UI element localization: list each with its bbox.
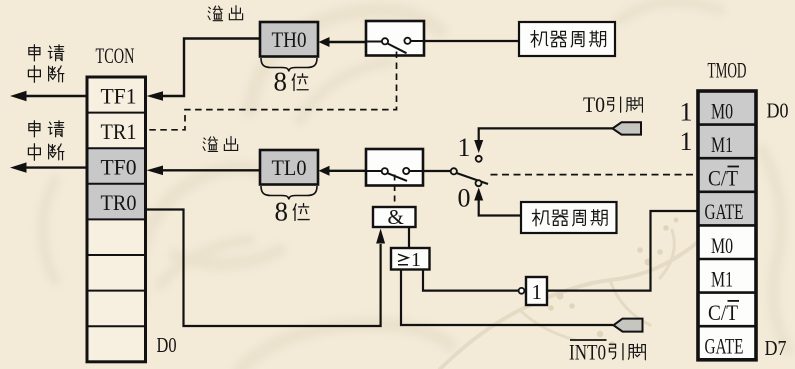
svg-text:&: & [388,205,404,229]
svg-text:8: 8 [274,67,288,97]
register TL0 [260,150,318,185]
svg-text:GATE: GATE [705,199,744,224]
pin INT0 [614,319,643,332]
label 溢出 (TH0) [208,6,243,21]
label TCON [96,43,135,68]
svg-text:M0: M0 [711,233,733,258]
bit GATE (high) [705,199,744,224]
register TH0 [260,22,318,57]
label T0引脚 [583,92,642,117]
svg-text:0: 0 [458,184,471,213]
wire switch2 to TL0 arrow [319,166,367,176]
wire TR0 to and-gate [147,210,386,327]
wire TF0 interrupt arrow [10,162,87,172]
label 8位 (TH0) [274,67,309,97]
label 1 (M1 preset) [680,127,693,156]
wire T0 pin to upper contact [474,128,613,161]
label 申请中断 (upper) [28,45,63,83]
wire TH0 overflow to TF1 [147,39,261,101]
svg-text:1: 1 [411,249,421,271]
box machine cycle 2 [521,202,617,233]
svg-text:C/T: C/T [708,300,738,325]
wire dashed TR1 control to switch1 [147,52,397,130]
svg-text:8: 8 [275,197,289,227]
switch S2 (TL0 input) [366,149,423,186]
not-gate (GATE inverter) [526,277,547,305]
wire TF1 interrupt arrow [10,91,87,101]
wire and-gate to or-gate [408,227,410,248]
svg-text:D7: D7 [765,336,787,360]
label 1 (M0 preset) [680,97,693,126]
wire dashed selector to C/T bit [491,174,699,176]
bit C/T (low) [708,300,739,325]
wire switch1 to TH0 arrow [319,37,367,47]
svg-text:1: 1 [680,127,693,156]
svg-text:TR1: TR1 [101,119,137,144]
and-gate U1 [373,205,416,229]
svg-text:C/T: C/T [708,166,738,191]
svg-text:M1: M1 [711,266,733,291]
svg-text:M1: M1 [711,132,733,157]
label INT0引脚 [569,340,645,365]
wire or-gate to not-gate input [423,270,518,291]
box machine cycle 1 [519,22,615,56]
wire or-gate to INT0 pin [401,270,613,326]
svg-text:TH0: TH0 [272,27,307,52]
label 0 (timer position) [458,184,471,213]
wire switch2 to selector pole [423,170,450,172]
pin T0 [613,122,642,134]
brace TL0 8-bit [261,186,317,200]
switch S1 (TH0 input) [366,21,424,56]
bit TR0 [101,190,137,215]
svg-text:TL0: TL0 [272,155,307,180]
label D7 (TMOD) [765,336,787,360]
svg-text:D0: D0 [157,333,177,357]
bit TF1 [101,84,137,109]
svg-text:TMOD: TMOD [708,58,747,83]
label TMOD [708,58,747,83]
register TCON [87,77,146,362]
bit M0 (low) [711,233,733,258]
bit M0 (high) [711,99,733,124]
label D0 (TCON) [157,333,177,357]
svg-text:1: 1 [532,280,543,304]
svg-text:1: 1 [458,133,471,162]
brace TH0 8-bit [261,58,317,72]
svg-text:GATE: GATE [705,334,744,359]
svg-text:TCON: TCON [96,43,135,68]
label 8位 (TL0) [275,197,310,227]
bit M1 (high) [711,132,733,157]
wire machine-cycle2 to lower contact [474,180,521,215]
wire GATE bit to not-gate [547,211,698,291]
svg-text:TF1: TF1 [101,84,137,109]
bit C/T (high) [708,166,739,191]
svg-text:TF0: TF0 [101,155,137,180]
bit TR1 [101,119,137,144]
svg-text:TR0: TR0 [101,190,137,215]
bit GATE (low) [705,334,744,359]
not-gate bubble [519,288,525,294]
svg-text:T0: T0 [583,92,605,117]
register TMOD [698,91,756,360]
svg-text:D0: D0 [767,99,789,123]
label 1 (counter position) [458,133,471,162]
wire switch1 to machine-cycle1 [424,40,519,42]
svg-text:M0: M0 [711,99,733,124]
or-gate U2 [391,248,430,271]
selector pole node [451,168,488,184]
label 申请中断 (lower) [28,121,63,161]
bit TF0 [101,155,137,180]
label 溢出 (TL0) [203,136,238,151]
svg-text:INT0: INT0 [569,340,606,365]
svg-text:1: 1 [680,97,693,126]
wire dashed and-gate to switch2 [394,175,396,207]
label D0 (TMOD) [767,99,789,123]
bit M1 (low) [711,266,733,291]
wire TL0 overflow to TF0 [147,166,261,176]
